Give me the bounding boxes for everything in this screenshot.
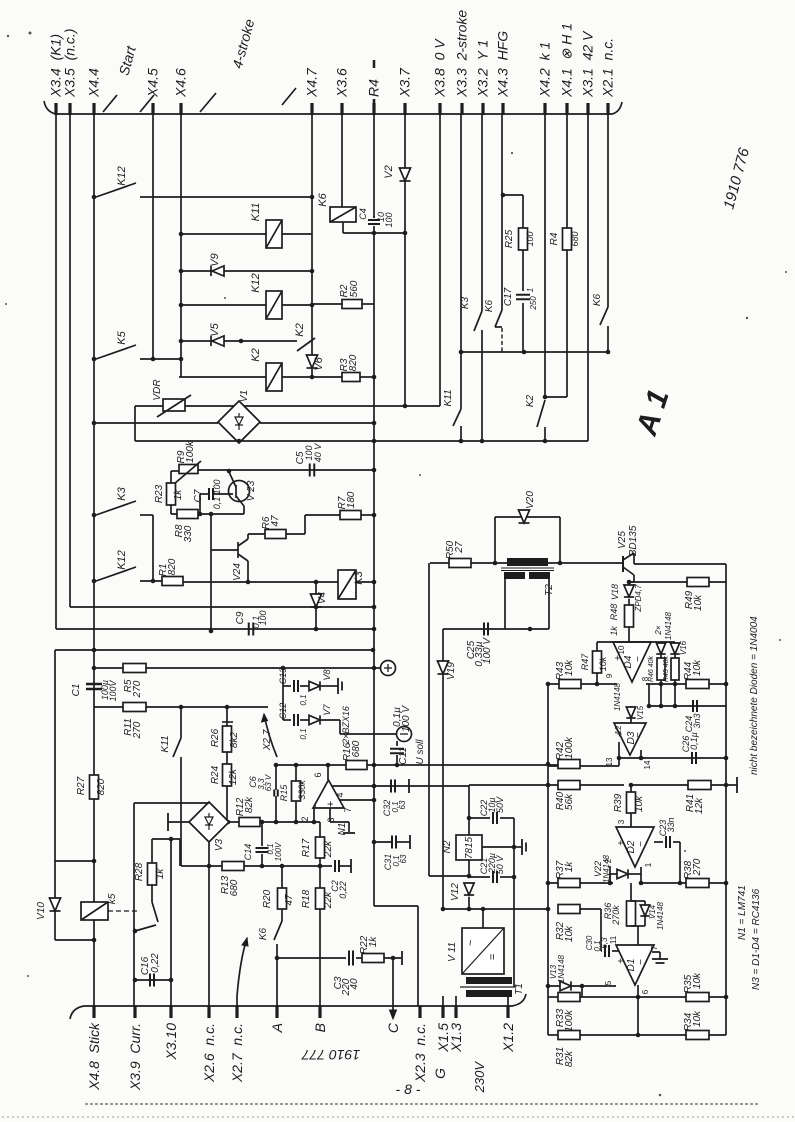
- wire V10 loop top: [55, 860, 94, 862]
- node C6 top: [274, 763, 279, 768]
- annotation slash right of Start: [140, 95, 154, 112]
- svg-text:K11: K11: [250, 203, 262, 222]
- node X4.3 branch: [501, 193, 506, 198]
- switch K12 blade top: [96, 183, 136, 197]
- wire C13 to V8: [300, 685, 309, 687]
- wire C23 left: [654, 841, 663, 843]
- svg-text:X4.3 HFG: X4.3 HFG: [495, 31, 511, 98]
- connector X4.1 terminal tick: [565, 103, 568, 115]
- node D1 out row: [636, 995, 641, 1000]
- svg-text:R4: R4: [549, 232, 560, 245]
- svg-text:K3: K3: [460, 296, 471, 309]
- svg-text:100k: 100k: [564, 1009, 575, 1032]
- wire K12 to R1: [140, 580, 162, 582]
- node K3 row left: [459, 350, 464, 355]
- svg-text:B: B: [312, 1023, 328, 1032]
- node C wire: [391, 956, 396, 961]
- resistor R28: [148, 863, 157, 885]
- node V20 left: [493, 561, 498, 566]
- wire V3 bottom stub: [208, 842, 210, 866]
- svg-text:N1: N1: [337, 823, 348, 836]
- svg-text:X2.1 n.c.: X2.1 n.c.: [600, 38, 616, 98]
- resistor R44: [686, 680, 709, 689]
- wire X4.1 down: [566, 115, 568, 228]
- diode V14: [640, 905, 649, 916]
- svg-text:820: 820: [167, 558, 178, 575]
- svg-text:R15: R15: [279, 784, 289, 802]
- svg-text:0,1: 0,1: [299, 694, 308, 705]
- svg-text:9: 9: [605, 673, 614, 678]
- svg-text:C7: C7: [193, 489, 204, 502]
- svg-text:+: +: [325, 801, 337, 807]
- svg-text:R23: R23: [154, 484, 165, 503]
- wire R17 column top: [319, 822, 321, 837]
- wire D3 out drop: [640, 750, 642, 758]
- svg-text:1k: 1k: [609, 626, 619, 636]
- wire V15 column: [630, 706, 632, 723]
- node rail at R41 row: [724, 783, 729, 788]
- wire R23 to R8 row: [170, 505, 172, 514]
- wire V19 column bottom: [442, 675, 444, 909]
- connector X3.10 terminal tick: [169, 1006, 172, 1018]
- node V15 top: [647, 704, 652, 709]
- svg-text:V7: V7: [322, 704, 332, 716]
- svg-text:100 V: 100 V: [401, 705, 412, 732]
- svg-text:X4.4: X4.4: [86, 68, 102, 98]
- node V5 row left: [179, 339, 184, 344]
- svg-text:250: 250: [529, 296, 538, 311]
- node rail K3 relay: [372, 580, 377, 585]
- svg-text:C9: C9: [235, 611, 246, 624]
- wire C4 bottom: [373, 226, 375, 233]
- svg-text:R20: R20: [262, 889, 273, 908]
- svg-text:V3: V3: [214, 838, 225, 851]
- wire X4.3 branch to R25 column: [503, 194, 523, 196]
- resistor R22: [362, 954, 384, 963]
- wire D3 pin13 column: [618, 742, 620, 766]
- svg-text:1k: 1k: [173, 489, 184, 501]
- bottom bus wire: [70, 994, 526, 1019]
- wire V22 left leg: [609, 874, 611, 883]
- node K11 column bottom: [459, 439, 464, 444]
- resistor R31: [558, 1031, 580, 1040]
- wire C25 row: [443, 628, 549, 630]
- svg-text:V 11: V 11: [447, 942, 458, 962]
- node X4.4 K3 switch: [92, 513, 97, 518]
- wire R37 row: [548, 882, 613, 884]
- resistor R43: [559, 680, 581, 689]
- capacitor C5: [310, 464, 315, 477]
- svg-text:V20: V20: [525, 491, 536, 509]
- annotation tick below R4 label: [373, 99, 376, 107]
- connector X3.2 terminal tick: [481, 103, 484, 115]
- svg-text:13: 13: [605, 757, 614, 766]
- connector X3.9 terminal tick: [133, 1006, 136, 1018]
- svg-text:40: 40: [349, 978, 360, 990]
- diode V10: [49, 898, 60, 911]
- wire K2 relay row right: [282, 376, 312, 378]
- svg-text:X3.5 (n.c.): X3.5 (n.c.): [62, 29, 78, 98]
- wire K11 relay row right: [282, 233, 312, 235]
- wire R36 top: [630, 883, 632, 901]
- capacitor C3: [349, 951, 353, 966]
- wire C7 right to base: [214, 493, 233, 495]
- svg-text:680: 680: [351, 740, 362, 757]
- svg-text:1: 1: [644, 862, 653, 867]
- svg-text:C4: C4: [358, 208, 368, 220]
- node X4.4 K12 switch: [92, 579, 97, 584]
- node left rail V13: [546, 984, 551, 989]
- node rail 765: [372, 763, 377, 768]
- svg-text:K5: K5: [116, 330, 128, 344]
- svg-text:K12: K12: [116, 550, 128, 570]
- wire X3.4 down: [55, 115, 57, 629]
- wire C13 row: [283, 685, 291, 687]
- wire R32 row: [443, 908, 548, 910]
- svg-text:100: 100: [258, 610, 268, 625]
- svg-text:C13: C13: [278, 668, 288, 685]
- svg-text:50V: 50V: [495, 796, 505, 813]
- wire VDR row left: [135, 405, 163, 407]
- svg-text:47: 47: [270, 515, 281, 527]
- wire V10 left leg: [54, 861, 56, 940]
- connector X3.1 terminal tick: [586, 103, 589, 115]
- svg-text:X4.7: X4.7: [304, 67, 320, 98]
- wire R2 row: [312, 303, 342, 305]
- wire R9 left leg: [171, 470, 179, 472]
- wire K11 column lower: [180, 707, 182, 738]
- wire R3 row: [312, 376, 342, 378]
- svg-text:K2: K2: [294, 323, 306, 336]
- connector R4 terminal tick: [372, 103, 375, 115]
- wire row 607: [70, 606, 374, 608]
- node rail 441: [372, 439, 377, 444]
- wire rail jog to X2.3: [374, 905, 418, 907]
- wire X3.2 down lower: [481, 330, 483, 441]
- wire K12 relay row right: [282, 304, 312, 306]
- svg-text:0,1: 0,1: [212, 497, 222, 510]
- node X3.7 on row 406: [403, 404, 408, 409]
- wire N1 pin7 out: [340, 799, 374, 801]
- terminal bar above R26: [222, 721, 233, 723]
- svg-text:100V: 100V: [274, 842, 283, 861]
- wire C6 column top: [275, 765, 277, 790]
- connector X4.5 terminal tick: [151, 103, 154, 115]
- node N1 pin2 row: [312, 820, 317, 825]
- node X3.10 top: [169, 837, 174, 842]
- svg-text:820: 820: [348, 354, 359, 371]
- wire R43 row: [548, 683, 617, 685]
- svg-text:R39: R39: [613, 793, 624, 812]
- resistor R27: [90, 775, 99, 799]
- wire R34 to rail: [709, 1034, 726, 1036]
- node R39 top: [629, 783, 634, 788]
- resistor R23: [167, 483, 176, 505]
- connector X4.8 terminal tick: [92, 1006, 95, 1018]
- plus terminal circle: [381, 661, 396, 676]
- terminal bar N1 pin3: [343, 832, 355, 834]
- svg-text:R46 40k: R46 40k: [648, 655, 655, 682]
- op-amp D4: [613, 642, 651, 682]
- node V13 out: [580, 984, 585, 989]
- wire X4.4/X4.8 long vertical: [93, 115, 95, 1006]
- svg-text:10k: 10k: [693, 594, 704, 611]
- wire C21 column: [513, 847, 515, 987]
- ground right of R41: [730, 784, 737, 786]
- wire N1 pin4 supply row: [332, 785, 469, 787]
- node V4 top: [314, 580, 319, 585]
- arrow X2.7 curved: [237, 938, 247, 996]
- wire K12 switch row: [140, 196, 312, 198]
- svg-text:1N4148: 1N4148: [613, 682, 622, 711]
- wire R15 top stub: [295, 765, 297, 781]
- node rail R44: [724, 682, 729, 687]
- wire D2 out down: [640, 867, 642, 883]
- transformer T1 winding b: [466, 990, 512, 997]
- arrowhead X2.7 curved: [242, 938, 248, 946]
- wire R36/V14 bottom row: [631, 925, 645, 927]
- svg-text:+: +: [616, 958, 627, 964]
- node K12 row right: [310, 303, 315, 308]
- wire R48 to D4: [628, 627, 630, 642]
- wire C6 column bottom: [275, 796, 277, 822]
- node left rail R43: [546, 682, 551, 687]
- wire D4 out row: [646, 683, 686, 685]
- capacitor C26: [692, 752, 696, 764]
- svg-text:40 V: 40 V: [313, 443, 323, 463]
- svg-text:R25: R25: [504, 229, 515, 248]
- node emitter R49 row: [627, 580, 632, 585]
- svg-text:X1.2: X1.2: [500, 1023, 516, 1053]
- capacitor C22: [493, 812, 497, 824]
- svg-text:22k: 22k: [323, 840, 334, 858]
- wire D1 pin11 column: [600, 909, 602, 951]
- svg-text:1k: 1k: [155, 868, 166, 880]
- svg-text:U soll: U soll: [415, 739, 426, 765]
- svg-text:BD135: BD135: [628, 525, 639, 556]
- resistor R37: [558, 879, 580, 888]
- capacitor C23: [666, 836, 670, 848]
- connector X4.3 terminal tick: [501, 103, 504, 115]
- wire R12 to N1 pin2: [260, 821, 320, 823]
- wire X4.1 to K2 jog: [545, 396, 567, 398]
- node R45 bottom: [673, 704, 678, 709]
- resistor R38: [686, 879, 709, 888]
- wire R49 to right rail: [709, 581, 726, 583]
- resistor R2: [342, 300, 362, 309]
- wire V7 right: [321, 719, 340, 721]
- relay K6 coil: [330, 207, 356, 222]
- wire X3.2 down upper: [481, 115, 483, 311]
- svg-text:−: −: [636, 841, 647, 847]
- svg-text:X2.7 n.c.: X2.7 n.c.: [229, 1023, 245, 1083]
- wire plus row 668: [94, 667, 380, 669]
- node X4.4 row 650: [92, 648, 97, 653]
- svg-text:180: 180: [346, 491, 357, 508]
- connector X3.4 terminal tick: [54, 103, 57, 115]
- wire R1 to K3 relay: [183, 581, 338, 583]
- svg-text:100: 100: [212, 479, 222, 494]
- capacitor C21: [493, 871, 497, 883]
- diode V19: [437, 661, 448, 674]
- svg-text:N1 = LM741: N1 = LM741: [737, 885, 748, 940]
- wire V20 left leg: [494, 517, 496, 563]
- svg-text:V12: V12: [450, 883, 461, 901]
- node R13/R17: [318, 864, 323, 869]
- svg-text:R28: R28: [134, 862, 145, 881]
- node K5 row right: [179, 357, 184, 362]
- node V24 emitter R1 row: [246, 580, 251, 585]
- node V1 top corner: [237, 404, 242, 409]
- switch K3 blade: [474, 311, 482, 331]
- wire V10 loop bottom: [55, 939, 94, 941]
- wire 2x diode column a: [660, 642, 662, 658]
- node X4.7 K12 row: [310, 195, 315, 200]
- svg-text:R18: R18: [301, 889, 312, 908]
- wire V4 bottom: [315, 607, 317, 629]
- svg-text:K12: K12: [250, 273, 262, 293]
- wire X4.2 down: [544, 115, 546, 397]
- svg-text:12k: 12k: [694, 797, 705, 814]
- ground left of V3: [168, 821, 189, 823]
- dashed link K6 switch: [501, 328, 503, 352]
- wire V3 top row to X3.9: [134, 802, 209, 804]
- svg-text:3: 3: [617, 819, 626, 824]
- wire switch row: [461, 351, 608, 353]
- transistor V23 base bar: [235, 485, 237, 498]
- svg-text:820: 820: [96, 778, 107, 795]
- svg-text:X4.8 Stick: X4.8 Stick: [86, 1022, 102, 1091]
- wire C13 branch down: [282, 668, 284, 720]
- node V5 row mid: [239, 339, 244, 344]
- wire X3.5 down: [69, 115, 71, 607]
- svg-text:X4.2 k 1: X4.2 k 1: [537, 42, 553, 98]
- svg-text:1N4148: 1N4148: [664, 611, 673, 640]
- svg-text:10k: 10k: [564, 925, 575, 942]
- svg-text:K6: K6: [592, 293, 603, 306]
- wire R4 connector down: [373, 115, 375, 218]
- diode V9: [211, 266, 224, 276]
- wire C17 to bottom rail: [522, 303, 524, 352]
- node rail 629: [372, 627, 377, 632]
- ground after V8: [330, 678, 342, 694]
- connector X1.3 terminal tick: [454, 1006, 457, 1018]
- node bridge bottom: [237, 439, 242, 444]
- svg-text:R48: R48: [609, 604, 619, 621]
- node left rail R32: [546, 907, 551, 912]
- relay K12 coil: [266, 291, 282, 319]
- arrowhead C column: [390, 1010, 397, 1019]
- svg-text:1N4148: 1N4148: [557, 954, 566, 983]
- capacitor C2: [335, 860, 339, 872]
- node V4 bottom: [314, 627, 319, 632]
- svg-text:K2: K2: [250, 348, 262, 361]
- wire C7 left stub: [200, 493, 208, 495]
- svg-text:680: 680: [229, 879, 240, 896]
- transformer T1 winding a: [466, 977, 512, 984]
- svg-text:10k: 10k: [692, 1010, 703, 1027]
- wire V13 row: [548, 985, 616, 987]
- svg-text:X3.1 42 V: X3.1 42 V: [580, 30, 596, 98]
- wire R47 row top: [597, 641, 629, 643]
- relay K5 coil: [81, 902, 108, 920]
- capacitor C31: [392, 836, 396, 849]
- node D2 out row: [639, 881, 644, 886]
- wire V11 top: [482, 909, 484, 928]
- svg-text:K6: K6: [258, 927, 269, 940]
- wire V13/R35 leg: [581, 986, 583, 997]
- wire R18 bottom to B: [319, 909, 321, 1006]
- wire R47 bottom: [596, 673, 598, 684]
- wire X3.1 down: [587, 115, 589, 441]
- svg-text:4: 4: [335, 792, 345, 797]
- svg-text:100k: 100k: [564, 736, 575, 759]
- capacitor C9: [249, 623, 254, 636]
- connector X1.5 terminal tick: [441, 1006, 444, 1018]
- wire 470 row: [198, 469, 374, 471]
- svg-text:2×: 2×: [654, 625, 663, 635]
- wire K11 relay row left: [181, 233, 266, 235]
- wire D1 pin7 stub: [652, 951, 660, 953]
- resistor R50: [449, 559, 471, 568]
- wire feedback row 706: [649, 705, 726, 707]
- wire N1 pin2 stub: [313, 808, 315, 822]
- wire R49 row: [629, 581, 687, 583]
- node V3 bottom at R13 row: [207, 864, 212, 869]
- svg-text:82k: 82k: [244, 796, 255, 813]
- arrowhead X2.7: [262, 714, 268, 722]
- node rail 650: [371, 648, 376, 653]
- connector X3.7 terminal tick: [403, 103, 406, 115]
- wire C11 stem down: [396, 755, 398, 765]
- connector X2.1 terminal tick: [606, 103, 609, 115]
- connector X4.4 terminal tick: [92, 103, 95, 115]
- wire V22 to D2 out: [628, 873, 641, 875]
- wire out row to R38: [641, 882, 686, 884]
- svg-text:R4: R4: [366, 79, 382, 97]
- node N2 ground: [512, 845, 517, 850]
- converter V11 box: [462, 928, 504, 974]
- node bridge right rail: [372, 421, 377, 426]
- wire N2 feed from R40 row: [468, 785, 470, 835]
- resistor R17: [316, 837, 325, 858]
- svg-text:10k: 10k: [692, 659, 703, 676]
- switch K2 upper blade: [297, 338, 315, 351]
- diode V22: [617, 869, 628, 878]
- wire V25 collector row: [633, 553, 635, 564]
- node V9 row right: [310, 269, 315, 274]
- wire R6 to R7 column: [286, 533, 305, 535]
- wire R45 stub: [674, 680, 676, 706]
- wire R20 top: [281, 866, 283, 888]
- node R15 top: [294, 763, 299, 768]
- wire V20 row: [495, 516, 560, 518]
- wire R35 row: [582, 996, 686, 998]
- svg-text:−: −: [636, 959, 647, 965]
- wire K3 switch row: [140, 514, 153, 516]
- node K12 row left: [179, 303, 184, 308]
- wire R6/R7 vertical: [304, 515, 306, 534]
- node C13 branch: [281, 666, 286, 671]
- node C7 left leg bottom: [198, 512, 203, 517]
- svg-text:10: 10: [617, 645, 626, 654]
- svg-text:C17: C17: [503, 287, 514, 306]
- wire V24 base column: [210, 514, 212, 550]
- svg-text:0,1: 0,1: [299, 728, 308, 739]
- svg-text:R47: R47: [580, 653, 590, 671]
- svg-text:+: +: [615, 731, 626, 737]
- wire X3.10 down: [170, 839, 172, 1006]
